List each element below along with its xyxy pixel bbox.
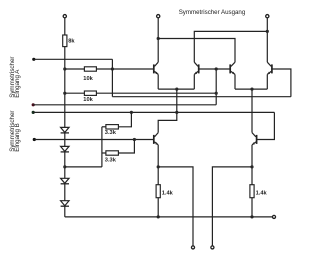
terminal right RT — [272, 215, 275, 218]
node junction A2-baseline — [215, 67, 218, 70]
text Symmetrischer Eingang B — [9, 111, 21, 152]
wire B1 drop to Q6 base — [257, 112, 274, 139]
resistor 10k upper — [84, 67, 96, 71]
wire tap2 down to Q6 collector — [251, 89, 253, 132]
terminal bottom BT2 — [211, 246, 214, 249]
wire pair1 emitter rail — [158, 88, 194, 90]
wire Q2 emitter down — [193, 74, 195, 89]
svg-text:3.3k: 3.3k — [105, 157, 117, 163]
node junction main-row2 — [63, 92, 66, 95]
diode D4 — [61, 201, 69, 207]
wire Q5 emitter down — [157, 145, 159, 185]
terminal input A2 (red) — [32, 103, 35, 106]
wire D1 to D2 — [64, 133, 66, 147]
svg-text:Eingang B: Eingang B — [14, 123, 21, 152]
wire input A1 row — [34, 58, 113, 60]
wire T1 to 8k — [64, 18, 66, 35]
wire Q4 emitter down — [266, 74, 268, 89]
resistor 8k — [63, 35, 67, 47]
node junction B1-tap1 — [175, 111, 178, 114]
terminal input B2 — [33, 138, 36, 141]
wire 3.3k upper right lead to B1 — [118, 112, 131, 126]
terminal T1 top-left supply — [63, 15, 66, 18]
wire O1 to Q1 collector — [157, 18, 159, 62]
wire A1 drop — [111, 59, 113, 96]
wire 1.4k right to rail — [251, 198, 253, 217]
node junction O1-rail1 — [157, 37, 160, 40]
wire 3.3k riser — [101, 127, 103, 167]
wire Q1 emitter down — [157, 74, 159, 89]
terminal output O2 — [266, 15, 269, 18]
wire emitter tap1 to bottom terminal 1 — [158, 167, 193, 246]
wire A2 riser to base line — [215, 69, 217, 105]
wire output rail2 — [194, 31, 267, 62]
node junction A2-row2 — [215, 92, 218, 95]
svg-text:Eingang A: Eingang A — [14, 69, 21, 98]
wire tap1 down with jog to Q5 collector — [158, 89, 177, 132]
svg-text:Symmetrischer Ausgang: Symmetrischer Ausgang — [179, 9, 246, 16]
wire row2 to A2 riser — [96, 92, 216, 94]
wire row1 to Q1 base — [96, 68, 153, 70]
wire input B2 row to Q5 base — [34, 139, 153, 141]
wire row2 left lead — [65, 92, 85, 94]
terminal input A1 — [32, 58, 35, 61]
svg-text:8k: 8k — [68, 39, 75, 45]
wire 8k to diode chain — [64, 47, 66, 128]
svg-text:3.3k: 3.3k — [105, 130, 117, 136]
resistor 3.3k upper — [106, 125, 119, 129]
terminal output O1 — [157, 15, 160, 18]
svg-text:1.4k: 1.4k — [162, 190, 174, 196]
wire A1 riser to Q4 base — [273, 69, 291, 97]
node junction A1-row1 — [111, 67, 114, 70]
svg-text:1.4k: 1.4k — [256, 190, 268, 196]
diode D2 — [61, 146, 69, 152]
node junction Q6 emitter tap — [250, 165, 253, 168]
wire A1 lower row to right — [112, 96, 291, 98]
transistor Q1 — [154, 62, 158, 74]
transistor Q6 — [252, 133, 257, 145]
wire row1 left lead — [65, 68, 85, 70]
transistor Q3 — [230, 62, 235, 74]
terminal input B1 (green) — [32, 111, 35, 114]
diode D1 — [61, 127, 69, 132]
wire D3 to D4 — [64, 184, 66, 201]
transistor Q2 — [194, 62, 198, 74]
node junction O2-rail2 — [266, 30, 269, 33]
resistor 1.4k left — [156, 185, 160, 198]
transistor Q5 — [154, 133, 158, 145]
wire input B1 row — [33, 111, 274, 113]
text Symmetrischer Eingang A — [9, 57, 21, 98]
wire base line Q2-Q3 — [199, 68, 229, 70]
wire bottom rail — [65, 216, 272, 218]
wire D2 to D3 — [64, 152, 66, 178]
node junction tap1-rail — [175, 88, 178, 91]
wire 3.3k lower left lead — [102, 152, 106, 154]
node junction B2-3.3k — [133, 138, 136, 141]
node junction Q5 emitter tap — [157, 165, 160, 168]
node junction 1.4k right rail — [250, 215, 253, 218]
svg-text:10k: 10k — [83, 76, 93, 82]
svg-text:10k: 10k — [83, 97, 93, 103]
wire Q6 emitter down — [251, 145, 253, 185]
resistor 1.4k right — [250, 185, 254, 198]
wire input A2 row — [33, 104, 216, 106]
wire D4 to bottom rail — [64, 206, 66, 217]
node junction B1-3.3k — [130, 111, 133, 114]
wire 3.3k lower right lead to B2 — [118, 140, 134, 154]
wire emitter tap2 to bottom terminal 2 — [212, 167, 252, 246]
node junction main-row1 — [63, 67, 66, 70]
wire 3.3k return to main line — [65, 166, 102, 168]
wire pair2 emitter rail — [235, 88, 267, 90]
wire Q3 emitter down — [234, 74, 236, 89]
node junction main to 3.3k return — [63, 165, 66, 168]
transistor Q4 — [267, 62, 272, 74]
wire O2 to Q4 collector — [266, 18, 268, 62]
node junction 1.4k left rail — [157, 215, 160, 218]
resistor 10k lower — [84, 91, 96, 95]
terminal bottom BT1 — [191, 246, 194, 249]
wire 1.4k left to rail — [157, 198, 159, 217]
resistor 3.3k lower — [106, 151, 119, 155]
node junction tap2-rail — [250, 88, 253, 91]
diode D3 — [61, 178, 69, 184]
wire 3.3k upper left lead — [102, 126, 106, 128]
wire output rail1 — [158, 39, 235, 63]
